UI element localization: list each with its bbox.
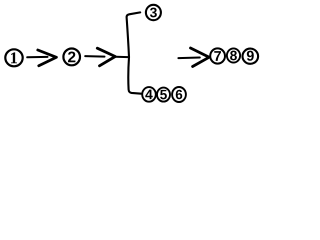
node 2 label	[68, 52, 75, 63]
node 8 circle	[227, 48, 240, 62]
node 2 circle	[63, 49, 80, 66]
node 5 circle	[157, 88, 170, 102]
node 4 circle	[142, 87, 156, 102]
arrow 1 head	[38, 50, 57, 66]
node 7 label	[214, 51, 221, 61]
node 5 label	[160, 90, 167, 100]
wire arrow 2 to bracket	[116, 56, 129, 58]
node 9 circle	[243, 49, 259, 64]
arrow 3 shaft	[178, 57, 199, 60]
node 4 label	[145, 90, 152, 100]
node 1 circle	[5, 49, 22, 66]
node 6 circle	[172, 87, 186, 102]
arrow 2 head	[97, 48, 115, 66]
node 3 label	[150, 8, 157, 18]
arrow 3 head	[191, 48, 210, 67]
bracket brace	[127, 12, 142, 93]
node 9 label	[247, 51, 254, 61]
node 6 label	[176, 90, 182, 100]
node 1 label	[11, 52, 17, 63]
node 8 label	[230, 51, 237, 61]
arrow 1 shaft	[27, 56, 47, 58]
node 3 circle	[146, 5, 161, 20]
node 7 circle	[210, 48, 225, 63]
arrow 2 shaft	[85, 55, 104, 58]
